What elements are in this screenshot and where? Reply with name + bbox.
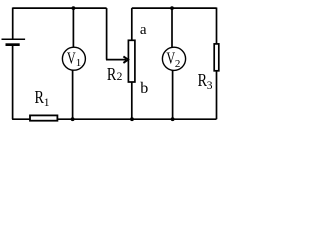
svg-text:R: R — [35, 87, 44, 107]
resistor R3 box — [214, 44, 219, 71]
rheostat R2 box — [128, 40, 135, 82]
svg-text:1: 1 — [76, 57, 82, 69]
label V1 — [67, 49, 81, 70]
voltmeter V1 circle — [62, 47, 85, 70]
label R1 — [35, 87, 50, 109]
svg-text:V: V — [67, 49, 76, 68]
resistor R1 box — [30, 115, 57, 120]
wire top-left segment — [13, 7, 107, 9]
svg-text:b: b — [140, 80, 148, 97]
battery cell short thick plate — [6, 43, 20, 46]
battery cell long plate — [2, 38, 26, 40]
wire V1 bottom lead — [72, 70, 74, 119]
wire left vertical upper — [12, 8, 14, 39]
wire wiper vertical drop — [106, 8, 108, 60]
svg-text:2: 2 — [117, 71, 123, 83]
wire bottom segment left of R1 — [12, 118, 30, 120]
wire left vertical lower — [12, 46, 14, 119]
label V2 — [166, 48, 180, 70]
junction node bottom of R2 branch — [130, 117, 134, 121]
wire bottom segment right of R1 — [58, 118, 217, 120]
wire V2 top lead — [171, 8, 173, 47]
svg-text:3: 3 — [207, 80, 213, 92]
label R3 — [198, 70, 213, 92]
svg-text:R: R — [107, 64, 116, 84]
wire V1 top lead — [72, 8, 74, 47]
voltmeter V2 circle — [162, 47, 185, 70]
svg-text:1: 1 — [44, 97, 50, 109]
wire R3 bottom lead — [216, 71, 218, 119]
wire right vertical upper — [216, 8, 218, 44]
svg-text:R: R — [198, 70, 207, 90]
junction node bottom of V2 branch — [171, 117, 175, 121]
junction node top of V1 branch — [72, 6, 76, 10]
wire top-right segment — [132, 7, 217, 9]
svg-text:a: a — [140, 22, 147, 38]
wire wiper horizontal shaft — [106, 59, 126, 61]
rheostat R2 wiper arrowhead — [123, 56, 128, 63]
junction node bottom of V1 branch — [71, 117, 75, 121]
wire R2 bottom lead — [131, 82, 133, 119]
label R2 — [107, 64, 123, 84]
junction node top of V2 branch — [170, 6, 174, 10]
wire R2 top lead — [131, 8, 133, 40]
wire V2 bottom lead — [172, 70, 174, 119]
svg-text:2: 2 — [175, 58, 181, 70]
